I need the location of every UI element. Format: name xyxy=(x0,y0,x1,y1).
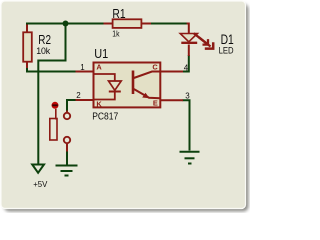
LED emission arrows xyxy=(194,33,213,48)
push button leads xyxy=(66,111,68,152)
wire: U1 pin 3 to right ground xyxy=(183,100,190,150)
power +5V terminal arrow xyxy=(32,165,44,173)
ground (right, under U1 pin 3) xyxy=(180,152,200,164)
wire: top net from R2 top to R1 left xyxy=(26,23,105,25)
wire: U1 pin 4 up to LED cathode xyxy=(183,55,189,72)
resistor R1 xyxy=(104,19,152,28)
push button top contact xyxy=(64,113,70,119)
pin 3 stub (E) xyxy=(160,99,183,101)
push button actuator dot xyxy=(52,102,59,109)
svg-text:K: K xyxy=(96,99,102,108)
svg-text:R2: R2 xyxy=(38,32,51,47)
wire: junction dot down, jog left, down to +5V terminal xyxy=(38,24,65,164)
push button bottom contact xyxy=(64,137,70,143)
internal LED of U1 xyxy=(95,74,122,100)
svg-text:PC817: PC817 xyxy=(92,111,118,122)
svg-text:C: C xyxy=(152,63,158,72)
wire: R1 right to LED anode corner xyxy=(151,23,188,25)
svg-text:10k: 10k xyxy=(36,46,51,56)
pin 2 stub (K) xyxy=(76,99,94,101)
svg-text:2: 2 xyxy=(76,91,81,100)
svg-text:A: A xyxy=(96,63,102,72)
wire: button bottom contact to left ground xyxy=(66,151,68,165)
diode D1 LED xyxy=(180,24,197,57)
internal transistor of U1 xyxy=(133,71,160,99)
svg-text:LED: LED xyxy=(219,46,234,56)
node: junction dot at +5V tap xyxy=(63,21,69,27)
svg-text:R1: R1 xyxy=(112,6,125,21)
pin 4 stub (C) xyxy=(160,71,183,73)
wire: U1 pin 2 to button top contact xyxy=(67,100,76,111)
svg-text:1: 1 xyxy=(80,63,85,72)
wire: R2 bottom elbow to U1 pin 1 xyxy=(27,65,76,72)
resistor R2 xyxy=(23,25,32,69)
paper background card xyxy=(1,1,249,212)
pin 1 stub (A) xyxy=(76,71,94,73)
svg-text:U1: U1 xyxy=(94,46,108,61)
ground (left, under button) xyxy=(56,166,78,176)
svg-text:+5V: +5V xyxy=(33,180,48,189)
push button plunger xyxy=(50,109,57,140)
svg-text:4: 4 xyxy=(184,63,189,72)
svg-text:E: E xyxy=(153,99,158,108)
optocoupler U1 (PC817) body xyxy=(94,63,161,108)
svg-text:1k: 1k xyxy=(112,29,120,38)
svg-text:D1: D1 xyxy=(221,32,234,47)
svg-text:3: 3 xyxy=(185,91,190,100)
